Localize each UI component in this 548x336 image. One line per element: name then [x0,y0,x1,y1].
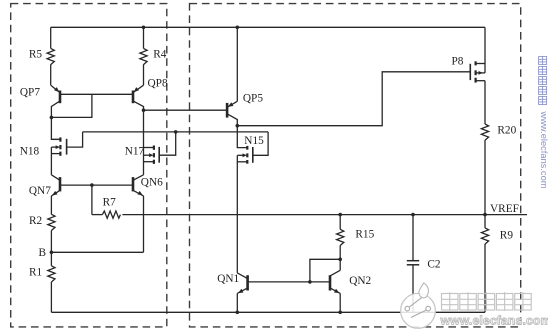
wire QP8 collector down to QN6 [143,110,145,175]
node base-R7 junction [90,183,94,187]
label QN6 [141,177,163,189]
node N17 gate junction [174,130,178,134]
wire bottom ground rail [51,311,485,313]
node QN2 base junction [308,280,312,284]
svg-text:QN2: QN2 [349,275,371,287]
wire R7 left arm [92,214,103,216]
wire R2 to node B [50,231,52,253]
label QP7 [20,87,40,99]
wire QP8 collector to QP5 base [144,109,228,111]
resistor R15 [337,229,344,245]
label R2 [29,215,43,227]
wire QN2 base to collector jog [310,259,340,282]
label C2 [427,258,441,270]
wire QN7 emitter to R2 [50,196,52,214]
svg-text:R9: R9 [500,230,514,242]
svg-text:QN7: QN7 [29,185,51,197]
label N18 [20,146,40,158]
svg-text:R7: R7 [103,196,117,208]
transistor QP7 [51,85,60,117]
resistor R9 [481,228,488,244]
node R15 top junction [338,213,342,217]
wire QN1 emitter to ground [236,293,238,312]
label B [39,247,47,259]
capacitor C2 [407,261,419,265]
svg-text:R20: R20 [497,125,516,137]
label VREF [490,203,519,215]
node R15 bottom junction [338,258,342,262]
mosfet N17 [144,132,176,164]
wire R20 to VREF [484,140,486,215]
mosfet N18 [51,132,82,156]
wire rail to P8 source [484,27,486,73]
wire QN2 emitter to ground [339,293,341,312]
watermark right edge (elecfans vertical) [539,56,548,189]
wire B to R1 [50,252,52,265]
svg-text:QP8: QP8 [148,77,168,89]
resistor R20 [481,124,488,140]
label QN2 [349,275,371,287]
svg-text:QP5: QP5 [243,93,263,105]
wire QN1 base line [248,281,330,283]
svg-text:QP7: QP7 [20,87,40,99]
label QN7 [29,185,51,197]
label R5 [29,48,43,60]
svg-text:R4: R4 [153,48,167,60]
transistor QN1 [237,273,247,294]
wire N15 source down to QN1 collector [236,155,238,273]
svg-text:QN6: QN6 [141,177,163,189]
wire VREF to R15 [339,215,341,230]
svg-text:R1: R1 [29,266,42,278]
wire node B to QN6 emitter [51,251,143,253]
svg-text:VREF: VREF [490,203,519,215]
svg-text:R15: R15 [355,229,374,241]
svg-text:B: B [39,247,47,259]
label R15 [355,229,374,241]
svg-text:P8: P8 [452,56,464,68]
label QP8 [148,77,168,89]
wire QN2 collector to R15 bottom [339,259,341,270]
wire VREF to R9 [484,215,486,228]
wire QP7 base line [60,93,133,95]
label N15 [244,135,264,147]
label QN1 [217,273,239,285]
node QP5 collector junction [236,124,240,128]
label P8 [452,56,464,68]
enclosure box 2 (right block, dashed) [190,4,521,327]
mosfet N15 [237,132,268,164]
mosfet P8 [470,61,485,82]
resistor R1 [48,266,55,282]
svg-text:www.elecfans.com: www.elecfans.com [440,314,548,328]
wire R9 to ground rail [484,244,486,312]
svg-text:www.elecfans.com: www.elecfans.com [539,111,548,189]
wire rail to R5 [50,27,52,48]
node QP8 collector junction [142,108,146,112]
wire R1 to ground rail [50,282,52,312]
resistor R2 [48,214,55,230]
wire R5 to QP7 emitter [50,64,52,85]
svg-text:R2: R2 [29,215,43,227]
node R20-R9 junction [483,213,487,217]
svg-text:N17: N17 [125,146,145,158]
resistor R7 [102,211,120,218]
wire P8 drain to R20 [484,81,486,124]
node QP7 collector junction [50,116,54,120]
wire gate bus QP5 collector to N18/N17/N15 gates [83,131,269,133]
wire top supply rail [51,26,485,28]
wire QN7 base line [60,184,133,186]
node C2 top junction [411,213,415,217]
transistor QP8 [133,85,144,110]
wire QP5 collector to N15 drain [237,126,247,148]
wire base junction down to R7 [91,185,93,215]
svg-text:C2: C2 [427,258,441,270]
label R1 [29,266,42,278]
label N17 [125,146,145,158]
watermark logo (elecfans circle) [401,283,436,328]
svg-text:QN1: QN1 [217,273,239,285]
transistor QN2 [330,270,340,293]
transistor QP5 [227,101,237,125]
wire QP7 diode connection [51,94,92,117]
resistor R4 [140,48,147,64]
svg-text:R5: R5 [29,48,43,60]
wire R15 to QN2 collector [339,246,341,260]
wire R4 to QP8 emitter [143,64,145,85]
node QN2 emitter junction [338,311,342,315]
label QP5 [243,93,263,105]
wire rail to R4 [143,27,145,48]
label R4 [153,48,167,60]
wire QP5 collector to P8 gate [237,72,470,126]
node B junction [50,251,54,255]
node R4 top junction [142,26,146,30]
resistor R5 [47,48,54,64]
wire rail to QP5 emitter [236,27,238,101]
wire QN6 emitter down to B wire [143,196,145,252]
enclosure box 1 (left block, dashed) [11,4,167,327]
wire C2 to ground rail [412,265,414,313]
node QP5 emitter junction [236,26,240,30]
wire N18 source down to QN7 [50,147,52,175]
wire VREF to C2 [412,215,414,261]
transistor QN6 [133,175,144,196]
svg-text:N18: N18 [20,146,40,158]
watermark text (elecfans bottom) [440,292,548,327]
label R9 [500,230,514,242]
svg-text:N15: N15 [244,135,264,147]
label R7 [103,196,117,208]
node QN1 emitter junction [236,311,240,315]
wire VREF output line [122,214,527,216]
wire QP7 collector to N18 drain [51,117,60,139]
transistor QN7 [51,175,60,196]
label R20 [497,125,516,137]
